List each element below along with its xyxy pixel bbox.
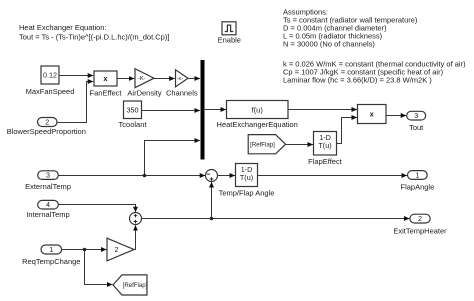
junction on ReqTempChange wire	[83, 248, 87, 252]
svg-text:1: 1	[415, 170, 419, 179]
wire Sum2 to ExitTempHeater with branch up to Sum1	[142, 218, 410, 220]
product block x (Tout)	[358, 105, 387, 124]
svg-text:350: 350	[127, 105, 139, 114]
svg-text:Laminar flow (hc = 3.66(k/D) =: Laminar flow (hc = 3.66(k/D) = 23.8 W/m2…	[283, 76, 432, 85]
svg-text:AirDensity: AirDensity	[127, 88, 161, 97]
svg-text:BlowerSpeedProportion: BlowerSpeedProportion	[7, 127, 86, 136]
mux bar	[201, 60, 205, 160]
svg-text:T(u): T(u)	[318, 141, 331, 150]
svg-text:FanEffect: FanEffect	[90, 88, 123, 97]
lookup table Temp/Flap Angle	[219, 164, 275, 198]
outport 2 ExitTempHeater	[393, 214, 447, 235]
svg-text:3: 3	[46, 171, 50, 180]
svg-text:[RefFlap]: [RefFlap]	[123, 282, 148, 289]
wire Gain2 to Sum2	[134, 225, 136, 249]
svg-text:N = 30000 (No of channels): N = 30000 (No of channels)	[283, 39, 375, 48]
fcn block HeatExchangerEquation f(u)	[217, 101, 298, 129]
inport 2 BlowerSpeedProportion	[7, 117, 86, 136]
junction on ExternalTemp wire	[143, 174, 147, 178]
outport 3 Tout	[407, 111, 426, 132]
goto tag [RefFlap]	[113, 275, 148, 295]
wire Sum1 to TempFlapAngle	[218, 175, 236, 177]
svg-text:Heat Exchanger Equation:: Heat Exchanger Equation:	[19, 23, 107, 32]
svg-text:MaxFanSpeed: MaxFanSpeed	[26, 87, 75, 96]
wire HeatExchangerEquation to Product	[288, 109, 357, 111]
svg-text:2: 2	[418, 214, 422, 223]
svg-text:FlapEffect: FlapEffect	[308, 157, 343, 166]
svg-text:-K-: -K-	[138, 76, 146, 82]
svg-text:0.12: 0.12	[43, 71, 57, 80]
svg-text:ExitTempHeater: ExitTempHeater	[393, 227, 447, 236]
wire ExternalTemp to Sum1 with branch to Mux	[58, 175, 205, 177]
svg-text:Tout: Tout	[409, 123, 424, 132]
wire Channels to Mux	[188, 78, 200, 80]
constant MaxFanSpeed 0.12	[26, 66, 75, 96]
junction on ExitTempHeater wire	[210, 217, 214, 221]
svg-text:Tcoolant: Tcoolant	[119, 120, 148, 129]
svg-text:4: 4	[46, 200, 50, 209]
svg-text:ExternalTemp: ExternalTemp	[25, 182, 71, 191]
product FanEffect	[90, 71, 123, 97]
outport 1 FlapAngle	[401, 170, 435, 191]
lookup table FlapEffect	[308, 132, 343, 167]
wire BlowerSpeedProportion to FanEffect	[57, 82, 93, 123]
sum Sum2 (plus plus)	[130, 213, 142, 225]
wire TempFlapAngle to FlapAngle	[258, 175, 408, 177]
inport 1 ReqTempChange	[22, 245, 80, 266]
wire Tcoolant to Mux	[142, 110, 200, 112]
sum Sum1 (minus plus)	[206, 170, 218, 182]
svg-text:Tout = Ts - (Ts-Tin)e^[(-pi.D.: Tout = Ts - (Ts-Tin)e^[(-pi.D.L.hc)/(m_d…	[19, 33, 169, 42]
svg-text:2: 2	[45, 117, 49, 126]
wire RefFlap to FlapEffect	[286, 144, 313, 146]
wire Mux to HeatExchangerEquation	[204, 109, 226, 111]
enable port block Enable	[218, 22, 241, 45]
wire MaxFanSpeed to FanEffect	[59, 75, 93, 77]
svg-text:HeatExchangerEquation: HeatExchangerEquation	[217, 120, 298, 129]
svg-text:Enable: Enable	[218, 35, 241, 44]
annotation: Assumptions text block	[283, 8, 466, 85]
svg-text:[RefFlap]: [RefFlap]	[250, 141, 275, 148]
svg-text:FlapAngle: FlapAngle	[401, 182, 435, 191]
svg-text:InternalTemp: InternalTemp	[26, 210, 69, 219]
gain Channels	[166, 70, 198, 98]
wire InternalTemp to Sum2	[58, 205, 135, 213]
svg-text:3: 3	[414, 111, 418, 120]
constant Tcoolant 350	[119, 101, 148, 129]
wire FlapEffect to Product	[337, 118, 358, 144]
inport 3 ExternalTemp	[25, 171, 71, 191]
svg-text:Temp/Flap Angle: Temp/Flap Angle	[219, 189, 275, 198]
annotation: Heat Exchanger Equation title	[19, 23, 169, 42]
wire ReqTempChange to Gain2 with branch to Goto	[62, 249, 107, 251]
wire FanEffect to AirDensity	[117, 78, 134, 80]
gain 2	[107, 238, 134, 261]
wire AirDensity to Channels	[154, 78, 175, 80]
svg-text:T(u): T(u)	[240, 173, 253, 182]
svg-text:2: 2	[115, 245, 119, 254]
svg-text:Channels: Channels	[166, 88, 198, 97]
wire Product to Tout	[386, 115, 406, 117]
from tag [RefFlap]	[248, 135, 285, 154]
svg-text:ReqTempChange: ReqTempChange	[22, 257, 80, 266]
gain AirDensity	[127, 69, 161, 98]
inport 4 InternalTemp	[26, 200, 69, 219]
svg-text:-K-: -K-	[177, 76, 184, 82]
svg-text:f(u): f(u)	[252, 106, 264, 115]
svg-text:1: 1	[49, 245, 53, 254]
